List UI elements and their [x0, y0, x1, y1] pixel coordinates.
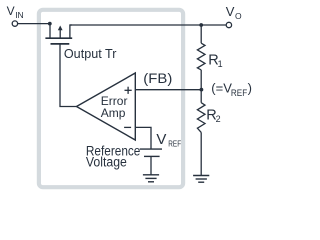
minus input mark: [124, 126, 131, 128]
junction node VO: [199, 23, 203, 27]
svg-text:V: V: [156, 131, 166, 148]
transistor Q1 output Tr (PMOS pass transistor): [45, 24, 72, 44]
svg-text:(=V: (=V: [211, 81, 232, 96]
wire minus input to reference: [135, 127, 151, 148]
wire R2 to ground: [200, 132, 202, 175]
wire battery to ground: [150, 156, 152, 174]
ground right: [193, 176, 209, 183]
svg-text:V: V: [7, 4, 15, 18]
wire drain to VO: [70, 24, 227, 26]
ground left: [143, 175, 159, 182]
svg-text:1: 1: [218, 59, 223, 69]
wire error amp output to gate: [60, 44, 77, 107]
svg-text:Amp: Amp: [101, 106, 126, 120]
wire FB to error amp plus input: [135, 89, 201, 91]
junction source node: [48, 22, 52, 26]
svg-text:O: O: [235, 11, 242, 21]
resistor R2: [197, 103, 205, 133]
label (=VREF): [211, 81, 252, 99]
label Reference Voltage: [86, 143, 140, 169]
IC outline box: [39, 10, 183, 187]
plus input mark: [125, 87, 132, 94]
svg-text:REF: REF: [231, 88, 247, 99]
svg-text:REF: REF: [168, 138, 181, 148]
node VIN label: [7, 4, 24, 20]
svg-text:2: 2: [216, 114, 221, 124]
wire R1 to FB node: [200, 70, 202, 90]
gate bar: [51, 43, 70, 45]
source lead: [49, 24, 51, 39]
wire VO node down to R1: [200, 25, 202, 43]
resistor R1: [197, 43, 205, 70]
label VREF: [156, 131, 181, 148]
terminal VO: [226, 22, 231, 27]
channel bar: [45, 37, 72, 39]
svg-text:): ): [248, 81, 252, 96]
wire VIN to source junction: [18, 23, 52, 25]
wire FB node down to R2: [200, 90, 202, 103]
node VO label: [226, 4, 242, 21]
svg-text:Voltage: Voltage: [86, 155, 127, 170]
label R2: [206, 107, 220, 123]
drain lead: [70, 25, 72, 38]
terminal VIN: [12, 21, 17, 26]
body arrow: [59, 29, 61, 39]
battery reference voltage source: [140, 149, 162, 156]
svg-text:(FB): (FB): [143, 71, 172, 86]
label R1: [208, 52, 222, 68]
svg-text:V: V: [226, 4, 235, 19]
svg-text:IN: IN: [15, 10, 24, 20]
op-amp U1 error amp: [77, 73, 136, 140]
svg-text:Output Tr: Output Tr: [64, 47, 117, 61]
node FB junction: [200, 88, 204, 92]
